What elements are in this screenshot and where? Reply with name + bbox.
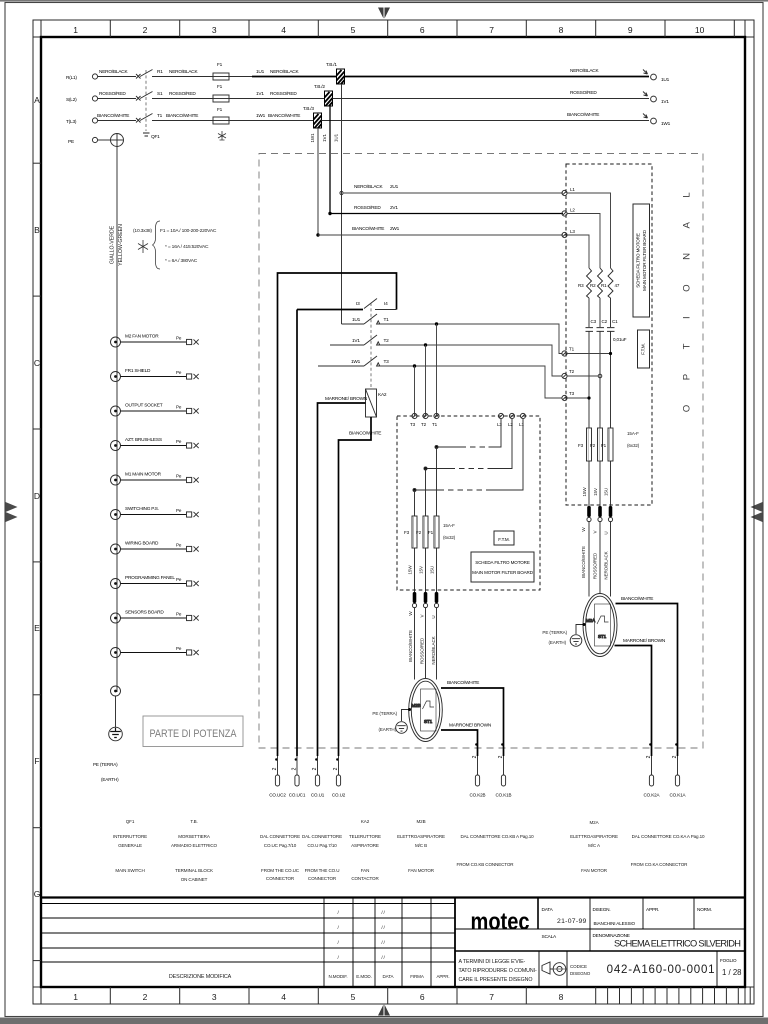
capacitor C2 [597,319,608,331]
svg-text:DAL CONNETTORE CO.KB A Pag.10: DAL CONNETTORE CO.KB A Pag.10 [460,834,534,839]
svg-text:MORSETTIERA: MORSETTIERA [178,834,211,839]
svg-text:BIANCO/WHITE: BIANCO/WHITE [567,112,599,118]
wire W fuse to pin [414,548,416,592]
svg-text:S(L2): S(L2) [66,97,77,103]
svg-text:4: 4 [281,25,286,35]
svg-text:Pe: Pe [176,405,182,410]
wire S right run [333,98,650,100]
wire label BIANCO/WHITE W vertical [408,611,413,662]
svg-text:4: 4 [281,992,286,1002]
svg-text:9: 9 [628,25,633,35]
wire L3 to R3 branch [567,235,589,268]
svg-text:GIALLO-VERDE: GIALLO-VERDE [110,225,116,264]
svg-text:CO.UC1: CO.UC1 [289,793,306,798]
svg-text:21-07-99: 21-07-99 [557,918,587,925]
M2A earth labels [542,630,567,645]
svg-text:FOGLIO: FOGLIO [720,958,737,963]
svg-text:AZT. BRUSHLESS: AZT. BRUSHLESS [125,437,162,443]
svg-text:YELLOW-GREEN: YELLOW-GREEN [118,224,124,266]
asterisk mark below fuses [218,131,226,140]
main earth electrode PE (TERRA) [93,696,122,782]
fuse rating 15A-F (6x32) left board [443,523,456,540]
terminal S(L2) [66,96,98,103]
svg-text:KA2: KA2 [378,392,387,398]
label GIALLO-VERDE / YELLOW-GREEN [110,224,125,266]
svg-text:2W1: 2W1 [390,226,400,232]
wire T2 tap [567,374,602,378]
svg-text:5: 5 [351,992,356,1002]
connector CO.UC2 [269,756,286,798]
resistor R1 value 47 [601,268,620,298]
svg-text:ROSSO/RED: ROSSO/RED [570,90,597,96]
svg-text:CO.UC2: CO.UC2 [269,793,286,798]
svg-text:F3: F3 [578,443,584,448]
terminal T(L3) [66,118,98,125]
svg-text:15V: 15V [593,487,598,496]
svg-text:8: 8 [559,992,564,1002]
svg-text:T.B./1: T.B./1 [326,62,337,68]
svg-text:7: 7 [489,25,494,35]
svg-text:PE (TERRA): PE (TERRA) [542,630,567,635]
connector CO.K2B [470,743,486,797]
svg-text:Pe: Pe [176,577,182,582]
svg-text:I3: I3 [356,301,360,307]
svg-text:BIANCO/WHITE: BIANCO/WHITE [408,630,413,662]
svg-text:CO.K2A: CO.K2A [644,793,661,798]
wire R phase left [98,76,252,78]
svg-text:DISEGNO: DISEGNO [570,971,591,976]
wire 2U1 NERO/BLACK [344,184,563,193]
svg-text:Pe: Pe [176,336,182,341]
svg-text:BIANCO/WHITE: BIANCO/WHITE [447,680,479,686]
legend M2B [397,819,445,873]
node T3 branch [413,364,416,367]
svg-text:F1: F1 [217,84,223,90]
svg-text:APPR.: APPR. [436,974,449,979]
terminal T2 left board [421,413,428,427]
legend M2A [570,820,618,873]
svg-text:FAN MOTOR: FAN MOTOR [581,868,608,873]
earth tap spare circle [111,686,121,696]
M2B earth electrode [396,722,408,734]
svg-text:1W1: 1W1 [256,113,266,119]
svg-text:T.B.: T.B. [190,819,197,824]
svg-text:MARRONE/ BROWN: MARRONE/ BROWN [623,638,666,644]
revision table headers [169,974,450,980]
svg-text:OUTPUT SOCKET: OUTPUT SOCKET [125,403,163,409]
svg-text:1: 1 [73,992,78,1002]
terminal R(L1) [66,74,98,81]
svg-text:L2: L2 [508,422,513,427]
fuse F2 left board [416,516,428,548]
svg-text:ROSSO/RED: ROSSO/RED [420,637,425,664]
svg-text:M2 FAN MOTOR: M2 FAN MOTOR [125,334,159,340]
svg-text:BIANCO/WHITE: BIANCO/WHITE [166,113,198,119]
svg-text:SCHEDA FILTRO MOTORE: SCHEDA FILTRO MOTORE [475,560,530,565]
svg-text:(EARTH): (EARTH) [378,727,396,732]
svg-text:0,01uF: 0,01uF [613,337,627,342]
svg-text:MAIN SWITCH: MAIN SWITCH [115,868,144,873]
earth tap AZT. BRUSHLESS [111,437,199,451]
terminal L1 left board [519,413,526,427]
F.T.M. box left [494,531,514,545]
projection symbol [542,962,567,975]
wire T2 drop to board [425,345,427,416]
svg-text:CO.U2: CO.U2 [332,793,346,798]
svg-text:2: 2 [143,25,148,35]
wire I4 drop to CO.UC2 [277,405,279,756]
svg-text:Pe: Pe [176,474,182,479]
svg-text:BIANCHINI ALESSIO: BIANCHINI ALESSIO [594,921,636,926]
wire phase V inside board [425,469,427,517]
svg-text:15W: 15W [582,487,587,497]
earth tap SENSORS BOARD [111,610,199,624]
wire numbers below fuses right board [582,487,609,497]
svg-text:(6x32): (6x32) [627,443,640,448]
svg-text:GENERALE: GENERALE [118,843,142,848]
svg-text:T1: T1 [432,422,438,427]
svg-text:FIRMA: FIRMA [410,974,425,979]
wire label ROSSO/RED V vertical [420,613,425,664]
svg-text:15U: 15U [604,488,609,496]
svg-text:C: C [34,358,40,368]
svg-text:1V1: 1V1 [256,91,264,97]
pin connector W right board [587,506,591,597]
switch QF1 pole T [136,114,153,123]
svg-text:47: 47 [615,283,620,288]
svg-text:INTERRUTTORE: INTERRUTTORE [113,834,147,839]
svg-text:R2: R2 [590,283,596,288]
right connector 1W1 [567,112,671,127]
svg-text:* = 6A / 380VAC: * = 6A / 380VAC [165,258,198,264]
terminal L2 left board [508,413,515,427]
bottom ruler numbers and cells [110,987,750,1004]
legend KA2 [349,819,381,881]
wire M2A BIANCO/WHITE to CO.K1A [616,596,678,756]
svg-text:U: U [604,531,609,534]
wire S phase left [98,98,325,100]
switch QF1 pole R [136,70,153,79]
svg-text:FAN: FAN [361,868,369,873]
note asterisk and brace [138,240,148,253]
fuse rating right board [627,431,640,448]
svg-text:N.MODIF.: N.MODIF. [329,974,348,979]
svg-text:ROSSO/RED: ROSSO/RED [354,205,381,211]
svg-text:ASPIRATORE: ASPIRATORE [351,843,379,848]
svg-text:QF1: QF1 [151,134,160,140]
svg-text:NERO/BLACK: NERO/BLACK [270,69,299,75]
fuse F1 row R [213,62,229,80]
wire T2 to filter boards [380,345,562,376]
svg-text:PE: PE [68,139,74,145]
legal disclaimer [459,959,537,983]
svg-text:SCHEMA ELETTRICO SILVERIDH: SCHEMA ELETTRICO SILVERIDH [614,939,741,949]
svg-text:042-A160-00-0001: 042-A160-00-0001 [607,964,716,976]
resistor R2 [590,268,603,298]
wire R right run [345,76,650,78]
svg-text:1W1: 1W1 [661,121,671,127]
node 2U1 branch [340,191,343,194]
svg-text:Pe: Pe [176,612,182,617]
wire phase W inside board [414,490,416,516]
svg-text:L3: L3 [497,422,502,427]
svg-text:DISEGN.: DISEGN. [593,907,611,913]
fuse F1 row S [213,84,229,102]
svg-text:6: 6 [420,992,425,1002]
terminal L3 right board [562,229,576,238]
terminal block T.B./3 [303,106,322,128]
svg-text:Pe: Pe [176,508,182,513]
PE junction circle with cross [98,134,124,147]
svg-text:L1: L1 [519,422,524,427]
wire T right run [322,120,650,122]
svg-text:F1: F1 [217,107,223,113]
svg-text:OPTIONAL: OPTIONAL [682,168,693,413]
svg-text:1W1: 1W1 [351,359,361,365]
svg-text:B: B [34,225,40,235]
svg-text:CO.U1: CO.U1 [311,793,325,798]
fuse F1 row T [213,107,229,124]
legend T.B. [171,819,218,882]
svg-text:1U1: 1U1 [256,69,265,75]
wire numbers below fuses left board [408,565,435,575]
svg-text:BIANCO/WHITE: BIANCO/WHITE [621,596,653,602]
node 2V1 branch [328,212,331,215]
svg-text:L1: L1 [570,187,575,192]
svg-text:Pe: Pe [176,543,182,548]
svg-text:M1 MAIN MOTOR: M1 MAIN MOTOR [125,472,162,478]
contact KA2 pole 1W1/T3 [318,356,389,366]
svg-text:motec: motec [471,907,530,935]
svg-text:R(L1): R(L1) [66,75,77,81]
node M2A earth [583,623,586,626]
node 2W1 branch [316,233,319,236]
svg-text:T2: T2 [421,422,427,427]
F.T.M. box right [638,330,650,368]
node T2 branch [424,343,427,346]
svg-text:R3: R3 [578,283,584,288]
wire KA2 BIANCO/WHITE to CO.U2 [339,417,382,756]
svg-text:ELETTROASPIRATORE: ELETTROASPIRATORE [397,834,445,839]
jumper T1-L3 [435,419,501,449]
wire T3 to filter boards [380,366,562,398]
svg-text:APPR.: APPR. [646,907,659,913]
svg-text:ROSSO/RED: ROSSO/RED [270,91,297,97]
terminal T3 left board [410,413,417,427]
node M2B earth [408,708,411,711]
svg-text:* = 16A / 415:520VAC: * = 16A / 415:520VAC [165,244,209,250]
svg-text:15A-F: 15A-F [627,431,639,436]
contact KA2 pole 1U1/T1 [342,314,390,324]
svg-text:L2: L2 [570,208,575,213]
earth tap M2 FAN MOTOR [111,334,199,348]
svg-text:F1 = 10A / 100-200-220VAC: F1 = 10A / 100-200-220VAC [160,228,217,234]
svg-text:15A-F: 15A-F [443,523,455,528]
svg-text:DATA: DATA [383,974,395,979]
svg-text:BIANCO/WHITE: BIANCO/WHITE [352,226,384,232]
wire T1 to filter boards [380,324,562,354]
svg-text:CO.K1B: CO.K1B [496,793,512,798]
svg-text:T1: T1 [384,317,390,323]
svg-text:QF1: QF1 [126,819,135,824]
svg-text:1U1: 1U1 [352,317,361,323]
svg-text:BIANCO/WHITE: BIANCO/WHITE [97,113,129,119]
svg-text:F.T.M.: F.T.M. [498,537,509,542]
QF1 linkage [143,70,160,140]
legend CO.KB [460,834,534,839]
svg-text:ROSSO/RED: ROSSO/RED [99,91,126,97]
motor M2B [409,679,443,742]
svg-text:ARMADIO ELETTRICO: ARMADIO ELETTRICO [171,843,218,848]
svg-text:SENSORS BOARD: SENSORS BOARD [125,610,164,616]
svg-text:A TERMINI DI LEGGE E'VIE-: A TERMINI DI LEGGE E'VIE- [459,959,526,965]
terminal PE [68,137,98,145]
KA2 linkage [370,303,372,389]
svg-text:SWITCHING P.S.: SWITCHING P.S. [125,506,159,512]
svg-text:15V: 15V [419,565,424,574]
right connector 1U1 [570,68,670,83]
left ruler letters and dividers [33,163,41,960]
connector CO.UC1 [289,756,306,798]
svg-text:T3: T3 [384,359,390,365]
svg-text:CARE IL PRESENTE DISEGNO: CARE IL PRESENTE DISEGNO [459,977,533,983]
wire label ROSSO/RED V vertical right [593,529,598,579]
svg-text:C3: C3 [591,319,597,324]
svg-text:NERO/BLACK: NERO/BLACK [99,69,128,75]
terminal T3 right board [562,391,575,401]
page edge shadows [0,0,768,2]
wire 2W1 BIANCO/WHITE [318,226,563,235]
wire label NERO/BLACK U vertical [431,615,436,664]
svg-text:CODICE: CODICE [570,964,587,969]
wire W fuse to pin right [588,461,590,506]
svg-text:M2A: M2A [586,618,596,623]
node T1 branch [435,322,438,325]
svg-text:10: 10 [695,25,705,35]
wire 1W1 drop from T.B./3 [310,128,318,235]
wire R1 to C1 [610,298,612,327]
wire I4 over-route [278,273,397,405]
svg-text:ST1: ST1 [424,719,433,724]
wire V fuse to pin right [599,461,601,506]
svg-text:CONNECTOR: CONNECTOR [266,876,295,881]
earth tap WIRING BOARD [111,541,199,555]
wire 1U1 drop from T.B./1 [334,84,342,324]
svg-text:M2B: M2B [417,819,426,824]
svg-text:BIANCO/WHITE: BIANCO/WHITE [268,113,300,119]
wire T3 drop to board [414,366,416,416]
svg-text:FROM THE CO.U: FROM THE CO.U [305,868,340,873]
connector CO.K1A [670,743,687,797]
svg-text:(6x32): (6x32) [443,535,456,540]
connector CO.K2A [644,743,661,797]
svg-text:T(L3): T(L3) [66,119,77,125]
fuse F1 left board [428,516,439,548]
svg-text:Pe: Pe [176,439,182,444]
fuse F1 right board [601,428,613,461]
svg-text:PROGRAMMING PANEL: PROGRAMMING PANEL [125,575,175,581]
wire R2 to C2 [599,298,601,327]
wire L2 to R2 branch [567,214,600,269]
svg-text:C2: C2 [602,319,608,324]
svg-text:MARRONE/ BROWN: MARRONE/ BROWN [325,396,368,402]
svg-text:PARTE DI POTENZA: PARTE DI POTENZA [150,728,238,740]
switch QF1 pole S [136,92,153,101]
svg-text:PE (TERRA): PE (TERRA) [93,762,118,767]
svg-text:CO.K2B: CO.K2B [470,793,486,798]
svg-text:TERMINAL BLOCK: TERMINAL BLOCK [175,868,213,873]
fuse F2 right board [590,428,603,461]
terminal L3 left board [497,413,504,427]
earth tap FR1 SHIELD [111,368,199,382]
svg-text:1U1: 1U1 [661,77,670,83]
pin connector V right board [598,506,602,594]
wire 2V1 ROSSO/RED [330,205,563,214]
terminal T1 left board [432,413,439,427]
wire T1 tap [567,352,612,355]
M2B earth wire [402,710,410,722]
terminal T2 right board [562,369,575,379]
svg-text:1V1: 1V1 [661,99,669,105]
svg-text:1 / 28: 1 / 28 [722,968,742,977]
wire T phase left [98,120,314,122]
fuse F3 left board [404,516,417,548]
pin connector U left board [434,592,438,680]
svg-text:NERO/BLACK: NERO/BLACK [354,184,383,190]
svg-text:CO.U Pag.7/10: CO.U Pag.7/10 [307,843,337,848]
motor M2A [583,594,617,657]
svg-text:5: 5 [351,25,356,35]
svg-text:F1: F1 [428,530,434,535]
wire C2 down [599,332,601,429]
svg-text:CONTACTOR: CONTACTOR [351,876,379,881]
svg-text:3: 3 [212,25,217,35]
svg-text:FROM CO.KA CONNECTOR: FROM CO.KA CONNECTOR [631,862,688,867]
svg-text:S1: S1 [157,91,163,97]
svg-text:E: E [34,623,40,633]
svg-text:BIANCO/WHITE: BIANCO/WHITE [581,546,586,578]
svg-text:NERO/BLACK: NERO/BLACK [431,636,436,664]
svg-text:MARRONE/ BROWN: MARRONE/ BROWN [449,723,492,729]
svg-text:R1: R1 [157,69,163,75]
svg-text:T3: T3 [569,391,575,396]
svg-text:F.T.M.: F.T.M. [641,343,646,354]
wire M2B MARRONE/BROWN to CO.K2B [441,723,492,757]
svg-text:A: A [34,95,40,105]
PE bus wire [116,147,118,693]
contact I3/I4 [356,299,397,310]
svg-text:15W: 15W [408,565,413,575]
svg-text:15U: 15U [430,566,435,574]
svg-text:FAN MOTOR: FAN MOTOR [408,868,435,873]
svg-text:2: 2 [143,992,148,1002]
revision rows slashes [337,910,385,961]
svg-text:DESCRIZIONE MODIFICA: DESCRIZIONE MODIFICA [169,974,232,980]
terminal block T.B./1 [326,62,345,84]
svg-text:MAIN MOTOR FILTER BOARD: MAIN MOTOR FILTER BOARD [472,570,534,575]
svg-text:1W1: 1W1 [310,133,315,143]
earth tap SWITCHING P.S. [111,506,199,520]
svg-text:M/C A: M/C A [588,843,601,848]
wire C1 down [610,332,612,429]
CODICE DISEGNO labels [570,964,591,976]
wire C3 down [588,332,590,429]
svg-text:NERO/BLACK: NERO/BLACK [169,69,198,75]
top ruler cell dividers [110,20,734,37]
wire label NERO/BLACK U vertical right [604,531,609,579]
connector CO.U1 [311,756,325,798]
svg-text:3: 3 [212,992,217,1002]
